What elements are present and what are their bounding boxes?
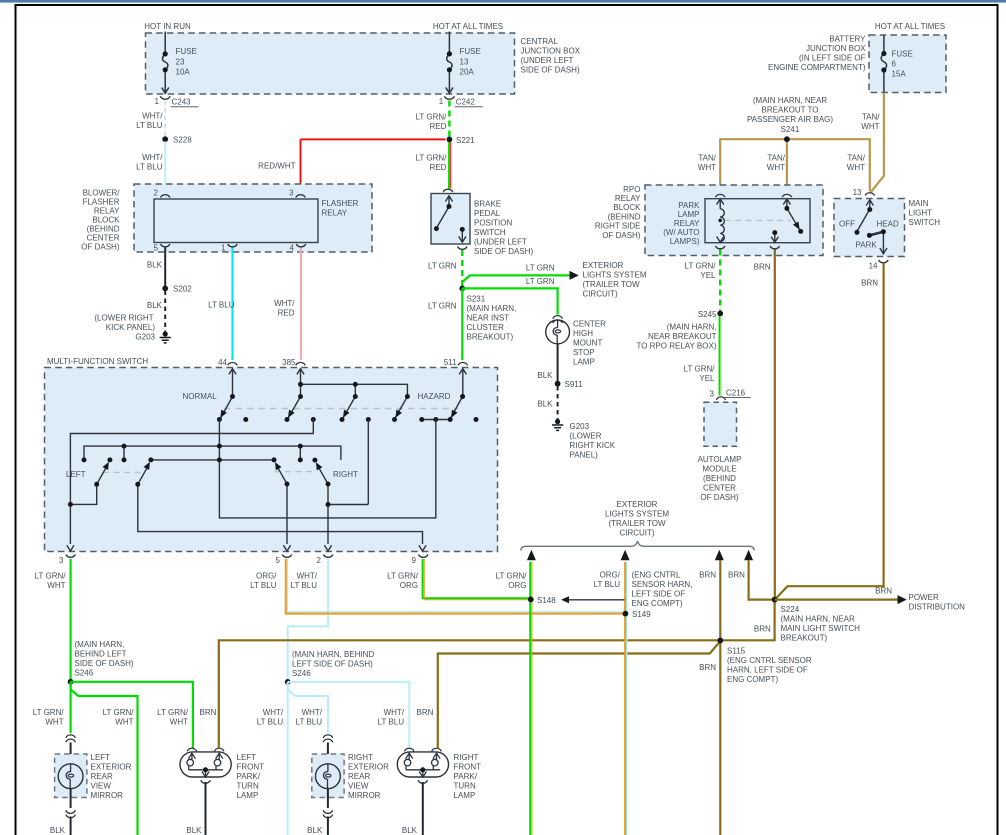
svg-text:WHT: WHT xyxy=(115,718,133,727)
svg-text:5: 5 xyxy=(154,244,159,253)
splice S245 xyxy=(717,311,723,317)
lamp R pin arcs xyxy=(404,748,414,751)
relay coil xyxy=(717,199,725,242)
svg-text:S115: S115 xyxy=(727,647,746,656)
svg-text:OFF: OFF xyxy=(839,220,855,229)
svg-text:4: 4 xyxy=(290,244,295,253)
svg-text:RIGHT SIDE: RIGHT SIDE xyxy=(595,222,641,231)
svg-text:YEL: YEL xyxy=(700,271,716,280)
label CENTER HIGH MOUNT STOP LAMP xyxy=(573,320,606,367)
svg-text:TAN/: TAN/ xyxy=(847,154,865,163)
svg-text:WHT/: WHT/ xyxy=(302,708,323,717)
splice S149 xyxy=(623,611,629,617)
splice S246 left xyxy=(68,679,74,685)
svg-text:CENTER: CENTER xyxy=(87,234,120,243)
wire WHT/RED pin4 to MFS 385 xyxy=(300,248,302,361)
svg-text:LT GRN/: LT GRN/ xyxy=(387,572,419,581)
svg-text:LT GRN: LT GRN xyxy=(428,262,457,271)
svg-text:TO RPO RELAY BOX): TO RPO RELAY BOX) xyxy=(636,342,716,351)
svg-text:RED/WHT: RED/WHT xyxy=(258,162,295,171)
splice S221 xyxy=(447,137,453,143)
svg-text:PEDAL: PEDAL xyxy=(474,209,501,218)
svg-text:LT BLU: LT BLU xyxy=(136,163,163,172)
relay coil pin top xyxy=(715,194,725,197)
splice S224 xyxy=(772,597,778,603)
svg-text:S246: S246 xyxy=(75,669,94,678)
svg-text:BLK: BLK xyxy=(537,371,553,380)
label PARK LAMP RELAY xyxy=(663,201,700,246)
svg-text:SIDE OF DASH): SIDE OF DASH) xyxy=(474,247,533,256)
park lamp relay body xyxy=(705,199,810,243)
wire LT GRN/RED solid S221 to brake switch xyxy=(449,142,451,189)
svg-text:LT BLU: LT BLU xyxy=(594,580,621,589)
left exterior rear view mirror box xyxy=(55,754,87,798)
wire WHT/LT BLU S246 to bottom xyxy=(287,682,289,835)
svg-text:LT GRN/: LT GRN/ xyxy=(416,113,448,122)
svg-text:CENTER: CENTER xyxy=(573,320,606,329)
svg-text:LT BLU: LT BLU xyxy=(378,718,405,727)
svg-text:POWER: POWER xyxy=(909,593,939,602)
svg-text:SWITCH: SWITCH xyxy=(474,228,506,237)
top window bar xyxy=(0,0,1006,3)
svg-text:RELAY: RELAY xyxy=(615,194,641,203)
splice S911 xyxy=(555,381,561,387)
svg-text:LIGHT: LIGHT xyxy=(909,209,933,218)
svg-text:LAMP: LAMP xyxy=(678,210,700,219)
wire LT GRN S231 to pin 511 xyxy=(461,288,463,360)
svg-text:SENSOR HARN,: SENSOR HARN, xyxy=(632,580,693,589)
left mirror bulb xyxy=(58,764,83,789)
svg-text:23: 23 xyxy=(176,57,185,66)
label ENG CNTRL SENSOR HARN note xyxy=(594,571,621,590)
wire LT GRN/YEL dashed relay to S245 xyxy=(719,250,721,312)
svg-text:WHT/: WHT/ xyxy=(263,708,284,717)
svg-text:HOT AT ALL TIMES: HOT AT ALL TIMES xyxy=(875,22,945,31)
svg-text:G203: G203 xyxy=(570,422,590,431)
wire TAN/WHT fuse 6 to pin 13 xyxy=(871,93,884,193)
splice S241 xyxy=(784,136,790,142)
svg-text:S231: S231 xyxy=(467,295,486,304)
label BATTERY JUNCTION BOX xyxy=(768,35,866,73)
svg-text:BLOCK: BLOCK xyxy=(92,216,120,225)
LEFT switch arm 1 xyxy=(70,462,109,505)
wire WHT/LT BLU S246 to right front lamp xyxy=(288,682,410,749)
label WHT/LT BLU pin2 xyxy=(291,572,318,591)
svg-text:BLK: BLK xyxy=(50,826,66,835)
svg-text:BRN: BRN xyxy=(417,708,434,717)
label WHT/LT BLU upper xyxy=(136,112,163,131)
svg-text:TURN: TURN xyxy=(454,782,476,791)
svg-text:STOP: STOP xyxy=(573,348,595,357)
wire BLK dashed S911 to G203 xyxy=(557,386,559,419)
svg-text:RED: RED xyxy=(430,122,447,131)
svg-text:LT GRN/: LT GRN/ xyxy=(416,154,448,163)
pin 4 xyxy=(296,244,306,247)
label TAN/WHT 2 xyxy=(767,154,786,173)
svg-text:BLK: BLK xyxy=(402,826,418,835)
wire TAN/WHT S241 bus xyxy=(720,139,870,191)
wire RED/WHT horizontal S221 to pin3 xyxy=(301,138,446,140)
wire WHT/LT BLU pin2 to S246 right xyxy=(288,559,328,680)
svg-text:(UNDER LEFT: (UNDER LEFT xyxy=(474,238,527,247)
svg-text:2: 2 xyxy=(154,189,159,198)
svg-text:CIRCUIT): CIRCUIT) xyxy=(583,290,618,299)
svg-text:LT GRN/: LT GRN/ xyxy=(685,262,717,271)
svg-text:MODULE: MODULE xyxy=(702,465,736,474)
wire WHT/LT BLU solid S228 to flasher pin 2 xyxy=(164,142,166,192)
arrow to power distribution xyxy=(898,595,907,604)
label LT GRN/WHT pin3 xyxy=(35,572,67,591)
connector C242 xyxy=(444,96,454,99)
svg-text:SWITCH: SWITCH xyxy=(909,218,941,227)
ground G203 center xyxy=(552,419,563,431)
svg-text:LAMP: LAMP xyxy=(454,791,476,800)
svg-text:VIEW: VIEW xyxy=(91,782,112,791)
svg-text:JUNCTION BOX: JUNCTION BOX xyxy=(521,47,581,56)
svg-text:511: 511 xyxy=(444,358,457,367)
svg-text:BLK: BLK xyxy=(537,400,553,409)
svg-text:FUSE: FUSE xyxy=(892,50,913,59)
wire BRN bracket arrow3 to S115 and bottom xyxy=(719,560,721,835)
svg-text:6: 6 xyxy=(892,60,897,69)
svg-text:(BEHIND: (BEHIND xyxy=(608,212,641,221)
svg-text:(W/ AUTO: (W/ AUTO xyxy=(663,228,699,237)
svg-text:OF DASH): OF DASH) xyxy=(602,231,641,240)
svg-text:BREAKOUT TO: BREAKOUT TO xyxy=(762,106,819,115)
wire BRN bus to left lamp xyxy=(219,600,775,749)
label S246 left breakout xyxy=(75,640,134,678)
svg-text:FLASHER: FLASHER xyxy=(322,199,359,208)
label BLOWER/FLASHER RELAY BLOCK xyxy=(81,189,120,252)
label AUTOLAMP MODULE xyxy=(698,455,742,502)
svg-text:BEHIND LEFT: BEHIND LEFT xyxy=(75,650,127,659)
svg-text:EXTERIOR: EXTERIOR xyxy=(583,261,624,270)
label WHT/LT BLU a xyxy=(257,708,284,727)
svg-text:LT BLU: LT BLU xyxy=(136,121,163,130)
wire BRN pin 14 down to S224 jog xyxy=(775,263,884,600)
wire BRN S224 to power distribution xyxy=(775,598,898,600)
LEFT switch mech link dashed xyxy=(103,471,144,473)
svg-text:(MAIN HARN,: (MAIN HARN, xyxy=(467,304,517,313)
svg-text:ORG/: ORG/ xyxy=(600,571,621,580)
wire LT GRN/YEL S245 to C216 xyxy=(720,316,722,396)
svg-text:WHT: WHT xyxy=(170,718,188,727)
right front park/turn lamp xyxy=(397,752,448,777)
svg-text:WHT: WHT xyxy=(47,581,65,590)
wire LT GRN/WHT S246 to left front lamp xyxy=(71,682,193,749)
svg-text:(MAIN HARN,: (MAIN HARN, xyxy=(75,640,125,649)
svg-text:20A: 20A xyxy=(460,68,475,77)
svg-text:WHT/: WHT/ xyxy=(274,299,295,308)
svg-text:BLK: BLK xyxy=(307,826,323,835)
svg-text:LT BLU: LT BLU xyxy=(250,581,277,590)
svg-text:5: 5 xyxy=(276,556,281,565)
wire BLK lamp L bottom xyxy=(205,782,207,835)
svg-text:RIGHT: RIGHT xyxy=(348,753,373,762)
svg-text:VIEW: VIEW xyxy=(348,782,369,791)
svg-text:ENG COMPT): ENG COMPT) xyxy=(727,675,778,684)
pin 3 xyxy=(296,195,306,198)
svg-text:EXTERIOR: EXTERIOR xyxy=(617,500,658,509)
svg-text:WHT: WHT xyxy=(767,163,785,172)
svg-text:(LOWER: (LOWER xyxy=(570,432,602,441)
svg-text:RELAY: RELAY xyxy=(674,219,700,228)
svg-text:MAIN: MAIN xyxy=(909,199,929,208)
svg-text:S911: S911 xyxy=(565,380,584,389)
svg-text:BLOWER/: BLOWER/ xyxy=(83,189,121,198)
svg-text:(LOWER RIGHT: (LOWER RIGHT xyxy=(94,314,153,323)
wire BLK connector to left mirror xyxy=(70,743,72,765)
label LT GRN/ORG pin9 xyxy=(387,572,419,591)
svg-text:S241: S241 xyxy=(781,125,800,134)
MFS internals top row xyxy=(220,369,466,420)
label S246 right breakout xyxy=(292,650,374,678)
bracket arrow 1 xyxy=(527,550,536,561)
label EXTERIOR LIGHTS SYSTEM 2 xyxy=(605,500,669,538)
svg-text:S246: S246 xyxy=(292,669,311,678)
svg-text:3: 3 xyxy=(289,189,294,198)
svg-text:(TRAILER TOW: (TRAILER TOW xyxy=(608,519,665,528)
main light switch box xyxy=(834,199,905,257)
svg-text:LT BLU: LT BLU xyxy=(257,718,284,727)
label LT GRN/RED lower xyxy=(416,154,448,173)
svg-text:WHT: WHT xyxy=(847,163,865,172)
svg-text:S245: S245 xyxy=(698,310,717,319)
label LT GRN/WHT b xyxy=(103,708,135,727)
inline connector above left mirror xyxy=(66,735,76,738)
svg-text:LIGHTS SYSTEM: LIGHTS SYSTEM xyxy=(583,271,647,280)
svg-text:RELAY: RELAY xyxy=(322,209,348,218)
wire TAN/WHT S241 drop to relay xyxy=(786,139,788,191)
brake pedal position switch box xyxy=(431,194,470,245)
svg-text:CIRCUIT): CIRCUIT) xyxy=(619,529,654,538)
svg-text:HARN, LEFT SIDE OF: HARN, LEFT SIDE OF xyxy=(727,666,808,675)
svg-text:S149: S149 xyxy=(632,610,651,619)
svg-text:15A: 15A xyxy=(892,70,907,79)
relay switch xyxy=(771,199,799,242)
svg-text:1: 1 xyxy=(155,97,160,106)
wire LT GRN/WHT S246 jog to bottom xyxy=(71,682,138,835)
pin 14 xyxy=(879,260,889,263)
svg-text:(ENG CNTRL SENSOR: (ENG CNTRL SENSOR xyxy=(727,656,812,665)
svg-text:(ENG CNTRL: (ENG CNTRL xyxy=(632,571,681,580)
svg-text:1: 1 xyxy=(221,244,226,253)
MFS internal bus wiring xyxy=(70,420,435,545)
svg-text:(MAIN HARN, NEAR: (MAIN HARN, NEAR xyxy=(753,96,827,105)
svg-text:FRONT: FRONT xyxy=(454,763,482,772)
svg-text:BREAKOUT): BREAKOUT) xyxy=(467,333,514,342)
fuse 23 10A xyxy=(162,32,169,94)
svg-text:LT GRN/: LT GRN/ xyxy=(684,365,716,374)
label WHT/LT BLU b xyxy=(296,708,323,727)
svg-text:MULTI-FUNCTION SWITCH: MULTI-FUNCTION SWITCH xyxy=(47,357,148,366)
label LT GRN/ORG bracket xyxy=(524,567,526,576)
svg-text:BLOCK: BLOCK xyxy=(613,203,641,212)
svg-text:PARK/: PARK/ xyxy=(237,772,261,781)
brake switch internals xyxy=(437,196,466,242)
wire ORG/LT BLU pin5 jog xyxy=(286,559,624,614)
branch wire LT GRN to exterior lights arrow xyxy=(462,275,569,282)
label LT GRN/WHT c xyxy=(157,708,189,727)
bracket arrow 4 xyxy=(744,550,753,561)
lamp R internals xyxy=(404,753,440,777)
connector C216 xyxy=(716,397,725,400)
svg-text:PARK: PARK xyxy=(678,201,700,210)
svg-text:PARK/: PARK/ xyxy=(454,772,478,781)
splice S115 xyxy=(717,638,723,644)
svg-text:LAMPS): LAMPS) xyxy=(670,237,700,246)
pin 385 xyxy=(296,362,306,365)
pin 13 xyxy=(865,193,875,196)
svg-text:(MAIN HARN, NEAR: (MAIN HARN, NEAR xyxy=(781,615,855,624)
splice S148 xyxy=(528,597,534,603)
arrow to exterior lights system xyxy=(570,271,579,280)
svg-text:HOT AT ALL TIMES: HOT AT ALL TIMES xyxy=(433,22,503,31)
wire BLK connector to right mirror xyxy=(327,743,329,765)
fuse 13 20A xyxy=(446,32,453,94)
label WHT/LT BLU lower xyxy=(136,153,163,172)
svg-text:385: 385 xyxy=(282,358,296,367)
svg-text:YEL: YEL xyxy=(699,374,715,383)
svg-text:BLK: BLK xyxy=(186,826,202,835)
svg-text:WHT/: WHT/ xyxy=(142,153,163,162)
svg-text:RIGHT: RIGHT xyxy=(454,753,479,762)
lamp R bottom connector xyxy=(418,780,428,783)
svg-text:OF DASH): OF DASH) xyxy=(81,243,120,252)
svg-text:AUTOLAMP: AUTOLAMP xyxy=(698,455,742,464)
RIGHT switch mech link dashed xyxy=(275,471,316,473)
svg-text:C216: C216 xyxy=(726,389,746,398)
MFS throw contact dots row xyxy=(217,417,479,422)
svg-text:PASSENGER AIR BAG): PASSENGER AIR BAG) xyxy=(747,115,833,124)
svg-text:MAIN LIGHT SWITCH: MAIN LIGHT SWITCH xyxy=(781,624,861,633)
label WHT/LT BLU c xyxy=(378,708,405,727)
svg-text:ENGINE COMPARTMENT): ENGINE COMPARTMENT) xyxy=(768,63,866,72)
svg-text:BRN: BRN xyxy=(754,263,771,272)
svg-text:(BEHIND: (BEHIND xyxy=(703,474,736,483)
svg-text:BRN: BRN xyxy=(861,279,878,288)
svg-text:LT GRN/: LT GRN/ xyxy=(496,572,528,581)
wire LT GRN S231 to stop lamp xyxy=(462,288,557,314)
svg-text:LT BLU: LT BLU xyxy=(296,718,323,727)
wire BLK right mirror to connector xyxy=(327,789,329,808)
svg-text:14: 14 xyxy=(869,262,878,271)
lamp L bottom connector xyxy=(201,780,211,783)
svg-text:LEFT SIDE OF DASH): LEFT SIDE OF DASH) xyxy=(292,660,373,669)
splice S228 xyxy=(162,136,168,142)
svg-text:LEFT: LEFT xyxy=(91,753,111,762)
wire BRN S115 to right lamp xyxy=(438,641,721,749)
svg-text:TAN/: TAN/ xyxy=(862,113,880,122)
svg-text:DISTRIBUTION: DISTRIBUTION xyxy=(909,603,966,612)
label RIGHT FRONT PARK/TURN LAMP xyxy=(454,753,482,800)
svg-text:FUSE: FUSE xyxy=(460,47,481,56)
svg-text:S224: S224 xyxy=(781,605,800,614)
svg-text:13: 13 xyxy=(460,57,469,66)
wire LT GRN/WHT S246 to left mirror xyxy=(69,682,71,733)
svg-text:(TRAILER TOW: (TRAILER TOW xyxy=(583,280,640,289)
svg-text:LT BLU: LT BLU xyxy=(208,301,235,310)
svg-text:RPO: RPO xyxy=(623,185,640,194)
svg-text:TURN: TURN xyxy=(237,782,259,791)
svg-text:BRN: BRN xyxy=(754,625,771,634)
svg-text:9: 9 xyxy=(412,556,417,565)
svg-text:WHT: WHT xyxy=(861,122,879,131)
svg-text:BRN: BRN xyxy=(875,587,892,596)
ground G203 left xyxy=(160,331,171,343)
svg-text:RELAY: RELAY xyxy=(94,207,120,216)
svg-text:BLK: BLK xyxy=(147,301,163,310)
svg-text:10A: 10A xyxy=(176,68,191,77)
fuse 6 15A xyxy=(881,35,886,93)
MFS exit arrows at bottom edge xyxy=(67,545,426,551)
svg-text:ORG/: ORG/ xyxy=(256,572,277,581)
svg-text:S148: S148 xyxy=(537,596,556,605)
inline connector above stop lamp xyxy=(553,316,563,319)
pin 44 xyxy=(228,362,238,365)
svg-text:NORMAL: NORMAL xyxy=(183,392,218,401)
svg-text:13: 13 xyxy=(853,188,862,197)
right exterior rear view mirror box xyxy=(312,754,344,798)
relay switch pin top xyxy=(782,194,792,197)
svg-text:1: 1 xyxy=(439,97,444,106)
svg-text:3: 3 xyxy=(59,556,64,565)
inline connector below left mirror xyxy=(66,810,76,813)
splice S231 xyxy=(459,286,465,292)
svg-text:BRN: BRN xyxy=(728,571,745,580)
svg-text:BRN: BRN xyxy=(699,571,716,580)
trailer tow bracket xyxy=(521,541,754,551)
wire BLK stop lamp to S911 xyxy=(557,344,559,382)
svg-text:BATTERY: BATTERY xyxy=(829,35,866,44)
label BRAKE PEDAL POSITION SWITCH xyxy=(474,200,533,257)
label RIGHT EXTERIOR REAR VIEW MIRROR xyxy=(348,753,389,800)
multi-function switch box xyxy=(45,368,498,552)
pin 3 bottom xyxy=(66,555,76,558)
svg-text:LT GRN/: LT GRN/ xyxy=(35,572,67,581)
inline connector above right mirror xyxy=(323,735,333,738)
svg-text:NEAR INST: NEAR INST xyxy=(467,314,510,323)
wire LT GRN/ORG vertical S148 xyxy=(530,562,532,835)
svg-text:ENG COMPT): ENG COMPT) xyxy=(632,599,683,608)
pin 2 bottom xyxy=(323,555,333,558)
MFS bus junction dots xyxy=(82,444,318,463)
MFS normal/hazard mech link dashed xyxy=(224,408,458,410)
svg-text:LT BLU: LT BLU xyxy=(291,581,318,590)
battery junction box xyxy=(869,35,946,93)
svg-text:FRONT: FRONT xyxy=(237,763,265,772)
svg-text:BRAKE: BRAKE xyxy=(474,200,501,209)
svg-text:LT GRN: LT GRN xyxy=(428,302,457,311)
svg-text:BREAKOUT): BREAKOUT) xyxy=(781,634,828,643)
svg-text:LT GRN: LT GRN xyxy=(526,277,555,286)
center high mount stop lamp bulb xyxy=(546,320,570,344)
svg-text:3: 3 xyxy=(710,390,715,399)
svg-text:LT GRN/: LT GRN/ xyxy=(33,708,65,717)
svg-text:OF DASH): OF DASH) xyxy=(700,493,739,502)
svg-text:BRN: BRN xyxy=(699,663,716,672)
svg-text:EXTERIOR: EXTERIOR xyxy=(348,763,389,772)
svg-text:WHT/: WHT/ xyxy=(142,112,163,121)
autolamp module box xyxy=(704,402,737,446)
svg-text:2: 2 xyxy=(317,556,322,565)
svg-text:CENTER: CENTER xyxy=(703,484,736,493)
svg-text:HIGH: HIGH xyxy=(573,329,593,338)
central junction box xyxy=(146,33,515,94)
svg-text:S221: S221 xyxy=(456,136,475,145)
svg-text:MIRROR: MIRROR xyxy=(348,791,381,800)
label LT GRN/YEL below relay xyxy=(685,262,717,281)
